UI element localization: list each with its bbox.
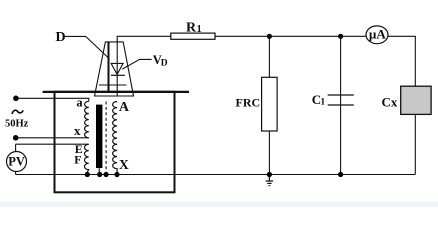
svg-text:x: x [74, 123, 81, 138]
svg-text:D: D [161, 58, 168, 68]
svg-text:1: 1 [197, 24, 202, 35]
svg-text:a: a [76, 95, 83, 109]
svg-text:A: A [119, 100, 130, 115]
svg-text:50Hz: 50Hz [5, 119, 29, 130]
svg-text:Cx: Cx [382, 94, 398, 109]
svg-text:FRC: FRC [236, 95, 261, 109]
svg-text:PV: PV [8, 154, 25, 168]
svg-text:F: F [74, 152, 81, 166]
svg-text:R: R [186, 20, 197, 35]
svg-text:µA: µA [369, 26, 386, 41]
svg-text:1: 1 [320, 98, 325, 108]
svg-text:D: D [56, 30, 66, 45]
svg-text:X: X [119, 157, 129, 172]
